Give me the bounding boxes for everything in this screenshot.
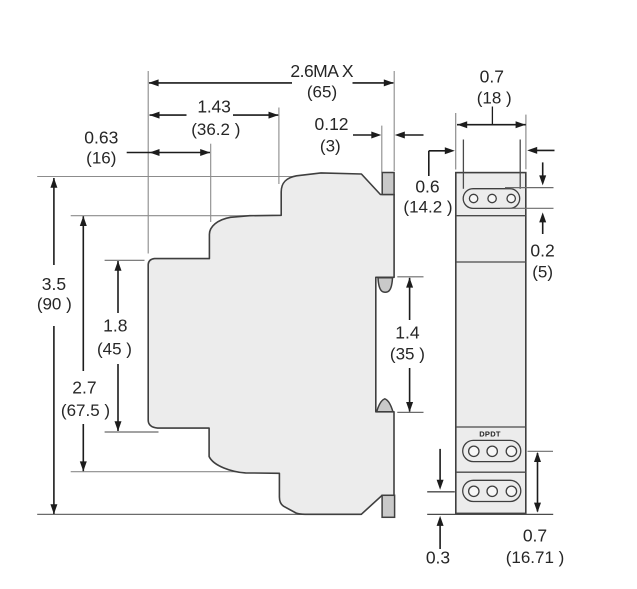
svg-text:1.8: 1.8 (103, 316, 127, 336)
upper rail clip arc (378, 278, 393, 293)
DPDT upper hole 2 (487, 446, 497, 456)
dimension 3.5 (90) (37, 178, 72, 514)
svg-text:(45 ): (45 ) (97, 340, 132, 359)
extension line 1.8 top y=260.3 (105, 259, 145, 261)
svg-text:(5): (5) (532, 263, 553, 282)
top terminal stadium (463, 189, 520, 209)
svg-text:(67.5 ): (67.5 ) (61, 401, 110, 420)
svg-text:0.63: 0.63 (84, 128, 118, 148)
extension line 1.8 bottom y=432 (105, 431, 159, 433)
extension line bottom y=514.4 (37, 513, 362, 515)
svg-text:(35 ): (35 ) (390, 345, 425, 364)
0.3 short line y=491.8 (427, 491, 455, 493)
top terminal hole 1 (469, 194, 477, 202)
DPDT upper hole 3 (506, 446, 516, 456)
dimension 0.12 (3) (314, 114, 423, 156)
front view divider y=472.2 (456, 471, 526, 473)
extension line left x=148 (147, 71, 149, 254)
bottom DIN tab (382, 495, 395, 517)
svg-text:(16.71 ): (16.71 ) (506, 548, 565, 567)
front view divider y=215.7 (456, 215, 526, 217)
svg-text:(3): (3) (320, 137, 341, 156)
bottom front extension line y=514.4 (427, 513, 553, 515)
dimension 0.2 (5) extension lines (505, 187, 554, 189)
front extension line right x=525.9 (525, 115, 527, 170)
extension line right x=394.2 (393, 71, 395, 171)
svg-text:0.2: 0.2 (530, 241, 554, 261)
front extension line left x=455.7 (455, 113, 457, 170)
dimension 0.7 (16.71) (506, 452, 565, 567)
extension line top y=176.5 (37, 176, 311, 178)
top terminal hole 3 (507, 194, 515, 202)
lower rail clip dome (377, 399, 393, 412)
front view body (456, 173, 526, 514)
DPDT stadium lower (463, 480, 521, 501)
DPDT upper hole 1 (469, 446, 479, 456)
side view body (148, 173, 394, 514)
svg-text:0.7: 0.7 (523, 526, 547, 546)
front view divider y=427 (456, 426, 526, 428)
extension line x=381.8 (381, 126, 383, 173)
DPDT stadium upper (463, 440, 521, 461)
dimension 0.3 (426, 449, 450, 568)
dimension 0.7 (16.71) extension line y=451.3 (528, 450, 554, 452)
front view divider y=262 (456, 261, 526, 263)
svg-text:1.4: 1.4 (395, 323, 420, 343)
svg-text:2.6MA X: 2.6MA X (290, 61, 353, 81)
dimension 0.6 (14.2) (403, 147, 554, 217)
extension line 2.7 bottom y=471.7 (71, 471, 242, 473)
svg-text:3.5: 3.5 (42, 274, 66, 294)
svg-text:(18 ): (18 ) (477, 89, 512, 108)
svg-text:2.7: 2.7 (72, 378, 96, 398)
svg-text:(90 ): (90 ) (37, 295, 72, 314)
extension line x=278.9 (278, 108, 280, 185)
top terminal hole 2 (488, 194, 496, 202)
svg-text:(36.2 ): (36.2 ) (191, 120, 240, 139)
svg-text:0.7: 0.7 (480, 67, 504, 87)
dimension 0.7 (18) (457, 67, 526, 129)
top DIN tab (382, 173, 394, 195)
dimension 2.7 (67.5) (61, 216, 110, 471)
svg-text:0.6: 0.6 (415, 176, 439, 196)
dimension 1.8 (45) (97, 261, 132, 431)
top terminal slot lines (462, 140, 464, 189)
svg-text:DPDT: DPDT (479, 429, 501, 438)
dimension 1.43 (36.2) (150, 96, 279, 138)
svg-text:0.3: 0.3 (426, 548, 450, 568)
dimension 1.4 (35) (390, 278, 425, 412)
svg-text:(14.2 ): (14.2 ) (403, 198, 452, 217)
DPDT lower hole 2 (487, 486, 497, 496)
dimension 2.6MAX (65) (149, 61, 394, 102)
DPDT lower hole 3 (506, 486, 516, 496)
svg-text:(16): (16) (86, 149, 116, 168)
dimension 1.4 (35) extension lines (397, 276, 423, 278)
extension line 2.7 top y=215.7 (71, 215, 250, 217)
DPDT lower hole 1 (469, 486, 479, 496)
svg-text:1.43: 1.43 (197, 96, 230, 116)
dimension 0.63 (16) (84, 128, 210, 168)
svg-text:0.12: 0.12 (314, 114, 348, 134)
extension line x=210.7 (210, 144, 212, 222)
dimension 0.2 (5) (530, 162, 554, 281)
svg-text:(65): (65) (307, 83, 337, 102)
